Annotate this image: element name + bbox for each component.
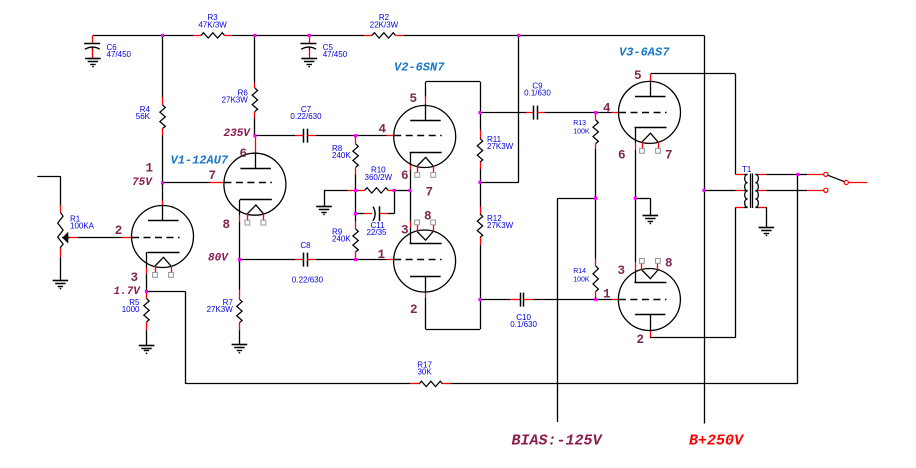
svg-text:27K3W: 27K3W	[487, 142, 514, 151]
svg-text:C8: C8	[300, 241, 311, 250]
svg-text:30K: 30K	[417, 368, 432, 377]
svg-text:47/450: 47/450	[107, 50, 132, 59]
svg-text:2: 2	[410, 303, 418, 317]
svg-text:5: 5	[634, 69, 642, 83]
svg-text:8: 8	[665, 257, 673, 271]
svg-text:6: 6	[618, 148, 626, 162]
svg-text:4: 4	[379, 123, 387, 137]
svg-text:T1: T1	[742, 165, 752, 174]
svg-text:7: 7	[665, 148, 673, 162]
svg-text:V1-12AU7: V1-12AU7	[171, 154, 229, 168]
svg-text:27K3W: 27K3W	[207, 305, 234, 314]
svg-text:0.1/630: 0.1/630	[524, 89, 551, 98]
svg-text:R14: R14	[573, 268, 586, 275]
svg-text:V3-6AS7: V3-6AS7	[619, 46, 670, 60]
svg-text:240K: 240K	[332, 235, 351, 244]
svg-text:7: 7	[209, 169, 217, 183]
svg-text:R13: R13	[573, 120, 586, 127]
svg-text:1: 1	[603, 288, 611, 302]
svg-text:7: 7	[426, 186, 434, 200]
svg-text:360/2W: 360/2W	[365, 173, 393, 182]
svg-text:3: 3	[401, 223, 409, 237]
svg-text:2: 2	[637, 333, 645, 347]
svg-text:8: 8	[223, 218, 231, 232]
svg-text:BIAS:-125V: BIAS:-125V	[512, 433, 604, 450]
svg-text:47/450: 47/450	[323, 50, 348, 59]
svg-text:100K: 100K	[573, 129, 590, 136]
svg-text:0.22/630: 0.22/630	[292, 276, 324, 285]
svg-text:27K3W: 27K3W	[222, 96, 249, 105]
svg-text:0.1/630: 0.1/630	[510, 320, 537, 329]
svg-text:2: 2	[115, 224, 123, 238]
svg-text:6: 6	[401, 169, 409, 183]
svg-text:6: 6	[240, 147, 248, 161]
svg-text:V2-6SN7: V2-6SN7	[394, 61, 445, 75]
svg-text:1: 1	[378, 248, 386, 262]
svg-text:1.7V: 1.7V	[114, 286, 142, 298]
svg-text:56K: 56K	[136, 112, 151, 121]
svg-text:27K3W: 27K3W	[487, 221, 514, 230]
svg-text:5: 5	[410, 92, 418, 106]
svg-text:75V: 75V	[132, 177, 153, 189]
svg-text:80V: 80V	[208, 252, 229, 264]
svg-text:100K: 100K	[573, 276, 590, 283]
svg-text:240K: 240K	[332, 151, 351, 160]
svg-text:22K/3W: 22K/3W	[370, 20, 399, 29]
svg-text:235V: 235V	[224, 128, 252, 140]
svg-text:47K/3W: 47K/3W	[198, 20, 227, 29]
svg-text:3: 3	[131, 271, 139, 285]
svg-text:1: 1	[146, 162, 154, 176]
svg-text:100KA: 100KA	[70, 222, 95, 231]
svg-text:3: 3	[618, 264, 626, 278]
svg-text:0.22/630: 0.22/630	[290, 112, 322, 121]
svg-text:B+250V: B+250V	[689, 433, 745, 450]
svg-text:4: 4	[603, 101, 611, 115]
svg-text:22/35: 22/35	[366, 228, 387, 237]
svg-text:1000: 1000	[122, 305, 140, 314]
svg-text:8: 8	[424, 210, 432, 224]
